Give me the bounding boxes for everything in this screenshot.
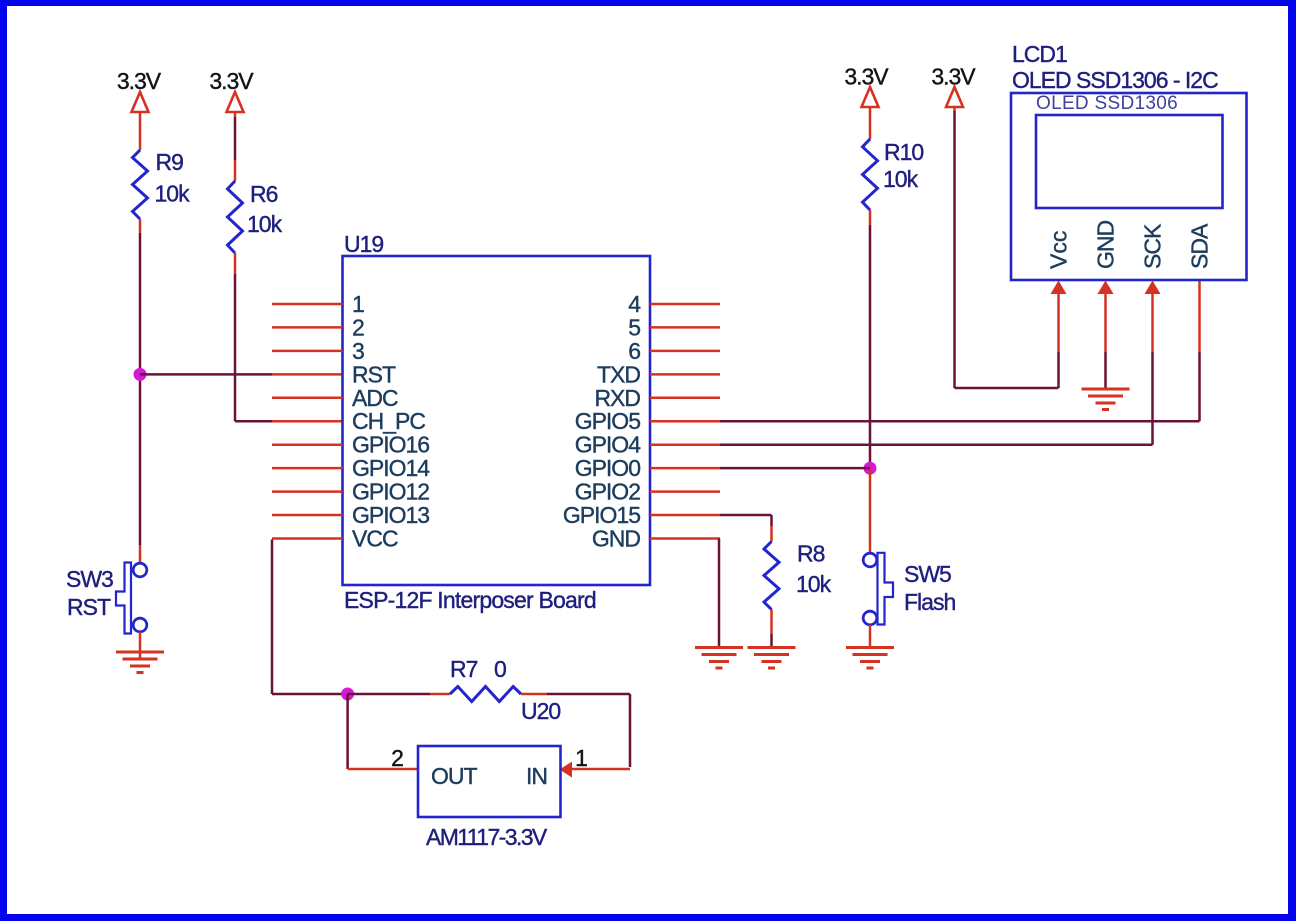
svg-text:10k: 10k <box>155 181 191 207</box>
pin stub GPIO2 (right) <box>650 490 720 493</box>
svg-text:10k: 10k <box>883 166 919 192</box>
ground R8 <box>748 646 796 649</box>
wire R10 bottom stub <box>869 210 872 225</box>
op IC U19 ESP-12F interposer <box>343 256 651 585</box>
wire RST horizontal <box>140 373 272 376</box>
wire R9 bottom stub <box>139 219 142 233</box>
display LCD1 screen box <box>1036 115 1223 208</box>
wire 3.3V to R10 <box>869 111 872 139</box>
ground SW3 <box>116 651 164 654</box>
svg-text:GPIO2: GPIO2 <box>575 479 641 505</box>
svg-text:LCD1: LCD1 <box>1012 41 1067 67</box>
wire GPIO5 to SDA <box>720 420 1200 423</box>
pin stub GPIO4 (right) <box>650 443 720 446</box>
wire GND vertical red <box>1104 292 1107 352</box>
svg-text:4: 4 <box>628 291 641 317</box>
svg-text:5: 5 <box>628 314 640 340</box>
wire into OUT pin <box>348 768 418 771</box>
wire GND vertical dark <box>1104 352 1107 390</box>
wire GPIO0 to junction <box>720 467 870 470</box>
pin stub CH_PC <box>272 420 343 423</box>
arrowhead IN pin <box>560 762 573 778</box>
regulator U20 AM1117 box <box>418 746 561 817</box>
svg-text:3.3V: 3.3V <box>117 68 162 94</box>
svg-text:GND: GND <box>592 526 641 552</box>
wire node to SW3 <box>139 374 142 545</box>
wire Vcc vertical red <box>1057 292 1060 352</box>
wire node to SW5 <box>869 468 872 553</box>
switch SW3 <box>133 563 147 577</box>
wire 3.3V to R9 <box>139 117 142 150</box>
wire R6 top stub <box>234 160 237 181</box>
svg-text:GPIO13: GPIO13 <box>352 502 429 528</box>
svg-text:ESP-12F Interposer Board: ESP-12F Interposer Board <box>344 587 596 613</box>
wire R8 bottom stub <box>770 610 773 635</box>
wire to SW3 pin <box>139 545 142 563</box>
svg-text:AM1117-3.3V: AM1117-3.3V <box>426 824 548 850</box>
wire 3.3V down (LCD Vcc) <box>953 111 956 388</box>
pin stub GPIO12 (left) <box>272 490 343 493</box>
pin stub GND (right) <box>650 537 720 540</box>
pin stub 6 (right) <box>650 350 720 353</box>
display LCD1 outer box <box>1011 93 1247 280</box>
wire R6 bottom stub <box>234 253 237 274</box>
svg-text:SW5: SW5 <box>904 561 951 587</box>
svg-text:CH_PC: CH_PC <box>352 408 425 434</box>
ground LCD GND <box>1082 388 1130 391</box>
wire SW5 to ground <box>869 625 872 649</box>
wire GPIO4 to SCK <box>720 443 1153 446</box>
wire 3.3V to R6 <box>234 117 237 160</box>
svg-text:2: 2 <box>352 314 364 340</box>
pin stub RXD (right) <box>650 397 720 400</box>
svg-text:OUT: OUT <box>431 763 478 789</box>
pin stub GPIO16 (left) <box>272 443 343 446</box>
pin stub 3 (left) <box>272 350 343 353</box>
svg-text:R7: R7 <box>450 656 478 682</box>
svg-text:U19: U19 <box>344 231 383 257</box>
pin stub GPIO14 (left) <box>272 467 343 470</box>
wire R7 right stub <box>521 693 547 696</box>
svg-text:GPIO15: GPIO15 <box>563 502 640 528</box>
wire VCC down <box>271 540 274 695</box>
wire SCK vertical red <box>1151 292 1154 352</box>
svg-text:GPIO14: GPIO14 <box>352 455 430 481</box>
svg-text:TXD: TXD <box>597 361 640 387</box>
svg-text:2: 2 <box>391 745 403 771</box>
resistor R9 <box>133 150 148 219</box>
wire R8 top stub <box>770 526 773 542</box>
wire R10 to GPIO0 node <box>869 225 872 468</box>
wire GND down <box>718 539 721 650</box>
pin stub 2 (left) <box>272 326 343 329</box>
wire R6 to CH_PC <box>234 274 237 421</box>
ground SW5 <box>846 646 894 649</box>
wire R8 to ground <box>770 634 773 649</box>
pin stub 5 (right) <box>650 326 720 329</box>
wire 3.3V to Vcc horizontal <box>955 387 1059 390</box>
arrowhead GND pin <box>1098 281 1114 295</box>
switch SW5 <box>863 553 877 567</box>
junction GPIO0 node <box>864 462 877 475</box>
wire R7 left stub <box>430 693 450 696</box>
arrowhead Vcc pin <box>1051 281 1067 295</box>
junction RST node <box>134 368 147 381</box>
wire R7 to IN corner <box>547 693 630 696</box>
svg-text:R9: R9 <box>156 149 184 175</box>
svg-text:GPIO12: GPIO12 <box>352 479 429 505</box>
wire GPIO15 down <box>770 515 773 526</box>
svg-text:IN: IN <box>526 763 547 789</box>
svg-text:R8: R8 <box>797 541 825 567</box>
pin stub 1 (left) <box>272 303 343 306</box>
wire into IN pin <box>571 768 630 771</box>
wire junction down to OUT <box>346 694 349 769</box>
resistor R10 <box>863 139 878 210</box>
junction VCC/R7/OUT node <box>341 688 354 701</box>
pin stub TXD (right) <box>650 373 720 376</box>
svg-text:VCC: VCC <box>352 526 398 552</box>
svg-text:10k: 10k <box>796 571 832 597</box>
svg-text:3.3V: 3.3V <box>209 68 254 94</box>
svg-text:RST: RST <box>352 361 396 387</box>
arrowhead SCK pin <box>1145 281 1161 295</box>
wire VCC to junction <box>272 693 348 696</box>
svg-text:GPIO0: GPIO0 <box>575 455 641 481</box>
svg-text:SW3: SW3 <box>66 566 113 592</box>
resistor R8 <box>764 542 779 610</box>
pin stub GPIO0 (right) <box>650 467 720 470</box>
resistor R7 <box>450 687 521 702</box>
svg-text:OLED SSD1306: OLED SSD1306 <box>1036 93 1178 114</box>
wire SW3 to ground <box>139 632 142 659</box>
pin stub GPIO13 (left) <box>272 514 343 517</box>
wire junction to R7 <box>348 693 430 696</box>
wire SDA vertical red <box>1198 280 1201 352</box>
pin stub GPIO15 (right) <box>650 514 720 517</box>
pin stub VCC <box>272 537 343 540</box>
svg-text:GND: GND <box>1093 221 1119 270</box>
ground U19 GND <box>695 646 743 649</box>
pin stub RST <box>272 373 343 376</box>
svg-text:3: 3 <box>352 338 364 364</box>
wire GPIO15 horizontal <box>720 514 772 517</box>
svg-text:Vcc: Vcc <box>1046 231 1072 269</box>
svg-text:1: 1 <box>352 291 364 317</box>
wire CH_PC horizontal <box>235 420 272 423</box>
svg-text:10k: 10k <box>247 211 283 237</box>
svg-text:RST: RST <box>67 594 111 620</box>
svg-text:6: 6 <box>628 338 640 364</box>
svg-text:GPIO16: GPIO16 <box>352 432 429 458</box>
wire Vcc vertical dark <box>1057 352 1060 388</box>
svg-text:OLED SSD1306 - I2C: OLED SSD1306 - I2C <box>1012 67 1218 93</box>
svg-text:Flash: Flash <box>904 589 955 615</box>
svg-text:U20: U20 <box>521 698 560 724</box>
svg-text:R10: R10 <box>884 139 923 165</box>
wire SCK vertical dark <box>1151 352 1154 445</box>
pin stub 4 (right) <box>650 303 720 306</box>
svg-text:1: 1 <box>575 745 587 771</box>
svg-text:RXD: RXD <box>594 385 640 411</box>
svg-text:SCK: SCK <box>1140 223 1166 269</box>
svg-text:SDA: SDA <box>1187 223 1213 269</box>
svg-text:GPIO5: GPIO5 <box>575 408 641 434</box>
pin stub ADC (left) <box>272 397 343 400</box>
svg-text:ADC: ADC <box>352 385 398 411</box>
svg-text:3.3V: 3.3V <box>844 64 889 90</box>
wire SDA vertical dark <box>1198 352 1201 421</box>
wire R9 to RST node <box>139 233 142 374</box>
svg-text:0: 0 <box>494 656 506 682</box>
pin stub GPIO5 (right) <box>650 420 720 423</box>
svg-text:R6: R6 <box>250 181 278 207</box>
resistor R6 <box>228 181 243 253</box>
wire down to IN <box>629 694 632 767</box>
svg-text:GPIO4: GPIO4 <box>575 432 642 458</box>
